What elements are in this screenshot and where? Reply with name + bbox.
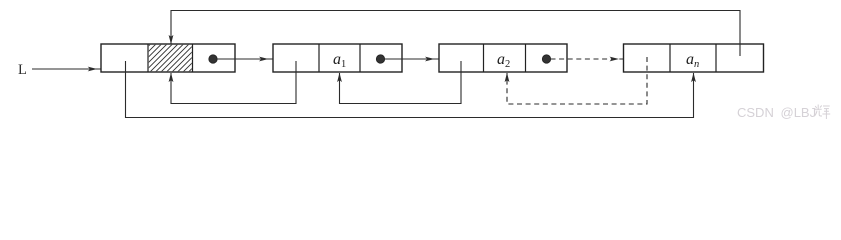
svg-text:CSDN: CSDN: [737, 105, 774, 120]
wire: N4 dashed prev pointer back to node N3: [507, 57, 647, 104]
node N1 cell divider 1: [147, 44, 149, 72]
node N1 head node box: [101, 44, 235, 72]
wire: N1 prev pointer down across bottom to node N4: [126, 61, 694, 118]
node N4 cell divider 2: [715, 44, 717, 72]
svg-text:@LBJ: @LBJ: [781, 105, 817, 120]
node N3 cell divider 1: [483, 44, 485, 72]
node N1 next pointer dot: [209, 55, 217, 63]
node N2 cell divider 2: [359, 44, 361, 72]
node N2 next pointer dot: [376, 55, 384, 63]
node N2 box: [273, 44, 402, 72]
node N3 box: [439, 44, 567, 72]
wire: N4 next pointer up and across top to node N1: [171, 11, 740, 57]
node N4 tail node box: [624, 44, 764, 72]
node N3 next pointer dot: [542, 55, 550, 63]
watermark CSDN @LBJ辉: [737, 105, 816, 120]
wire: N2 next arrow to node N3: [385, 58, 439, 60]
node N2 cell divider 1: [318, 44, 320, 72]
wire: N1 next arrow to node N2: [217, 58, 273, 60]
node N3 cell divider 2: [525, 44, 527, 72]
watermark hui glyph: [814, 105, 830, 120]
wire: L head pointer arrow into node 1: [32, 68, 101, 70]
svg-text:L: L: [18, 62, 27, 78]
node N1 hatched prev cell: [117, 42, 219, 72]
node N1 cell divider 2: [192, 44, 194, 72]
wire: N3 prev pointer back to node N2: [340, 61, 462, 104]
wire: N2 prev pointer back to node N1: [171, 61, 296, 104]
node N4 cell divider 1: [669, 44, 671, 72]
wire: N3 dashed next arrow to node N4: [551, 58, 624, 60]
